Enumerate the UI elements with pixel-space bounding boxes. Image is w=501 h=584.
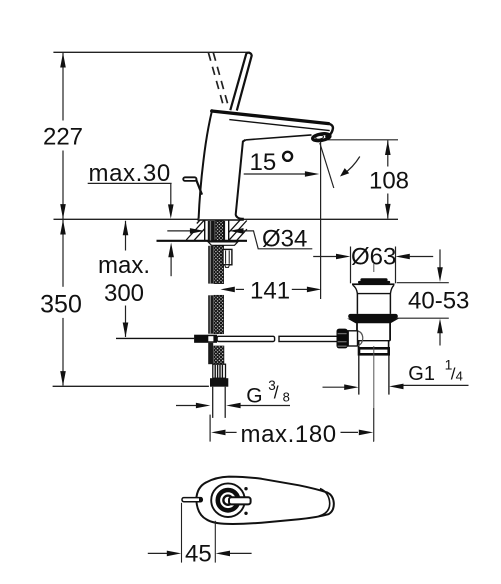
shank hole left edge (204, 220, 206, 241)
dimension G1 1/4 arrows (323, 386, 345, 388)
dimension 350 vertical line (62, 220, 64, 386)
handle screw dots (244, 487, 247, 490)
svg-text:max.180: max.180 (241, 421, 337, 448)
dimension 15-degree leader arrow (244, 173, 306, 175)
drain pop-up cap dome (360, 278, 387, 281)
faucet spout underside (246, 135, 312, 140)
svg-text:227: 227 (43, 123, 83, 150)
svg-text:8: 8 (283, 390, 290, 405)
deck hatching left block (186, 220, 204, 240)
lever blade raised (solid) (230, 53, 251, 111)
dimension 45 extension lines (181, 503, 183, 563)
node spout outlet reference line (322, 139, 399, 141)
handle boss thick ring (218, 490, 238, 510)
wire faucet base thick segment on counter (198, 218, 244, 221)
supply pipe below nut (212, 387, 214, 418)
hose braided upper (214, 246, 224, 284)
dimension G3/8 arrows (176, 405, 197, 407)
hose nut G3/8 (210, 378, 228, 387)
hose braided lower (214, 295, 224, 333)
drain flange trapezoid (347, 319, 399, 324)
dimension max.30 upper arrow (170, 183, 172, 204)
hose rear bar lower (208, 295, 213, 333)
faucet spout tip curve (329, 124, 333, 136)
drain neck walls (356, 294, 358, 314)
faucet body silhouette (199, 110, 333, 219)
drain rod port tube (348, 331, 357, 346)
spout mouth aerator (312, 133, 330, 142)
svg-text:G: G (246, 385, 262, 408)
svg-text:300: 300 (104, 280, 144, 307)
svg-text:max.: max. (98, 252, 150, 279)
svg-text:45: 45 (185, 541, 212, 568)
drain centerline lower (373, 346, 375, 441)
dimension 108 vertical line (387, 140, 389, 218)
lever blade phantom (dashed) (208, 53, 229, 109)
node water stream vertical line (320, 142, 322, 300)
shank body dark column (208, 221, 215, 241)
node stream 15-degree tilted line (320, 143, 334, 188)
handle boss inner ring (223, 496, 232, 505)
dimension max.300 vertical line (125, 221, 127, 337)
faucet body right edge (236, 140, 246, 219)
handle pin (182, 498, 202, 502)
pop-up rod tube segment 2 (279, 336, 338, 341)
svg-text:15: 15 (250, 149, 277, 176)
shank threaded column (215, 221, 223, 241)
shank hole right edge (228, 220, 230, 241)
drain cap cone (353, 285, 394, 293)
dimension stream curved arrow (344, 157, 360, 175)
node top reference line (max lever height) (53, 51, 250, 53)
drain seal band (348, 314, 398, 319)
svg-text:40-53: 40-53 (408, 287, 469, 314)
handle inner end line (319, 489, 330, 517)
svg-text:4: 4 (456, 369, 463, 384)
drain pull-rod knob (337, 329, 348, 349)
svg-text:141: 141 (250, 277, 290, 304)
mounting washer (208, 242, 238, 245)
dimension Ø34 leader (243, 231, 312, 249)
hose end connector ribbed (213, 364, 226, 378)
faucet top edge (thick) (212, 111, 329, 124)
faucet top-face bevel line (229, 120, 329, 131)
drain cap rim (352, 283, 395, 285)
dimension 40-53 reference lines (397, 282, 449, 284)
dimension 227 arrowheads (60, 53, 66, 219)
pop-up rod tube segment 1 (217, 336, 275, 341)
mounting stud (223, 249, 232, 264)
dimension 141 (236, 288, 244, 290)
dimension max.180 (209, 415, 211, 442)
handle silhouette (196, 477, 334, 524)
drain body port inner arc (358, 331, 363, 346)
drain tailpipe walls (358, 355, 360, 394)
handle boss outer circle (211, 483, 245, 517)
dimension max.30 lower arrow (170, 257, 172, 276)
drain valve body walls (356, 323, 358, 331)
joystick lever side handle (183, 177, 196, 181)
hose braided below clamp (214, 346, 224, 364)
dimension Ø34 arrows (167, 230, 190, 232)
shank inner dark line (223, 221, 225, 241)
pop-up rod left section (116, 337, 194, 339)
node counter/deck top line (54, 218, 399, 220)
svg-text:G1: G1 (408, 363, 435, 385)
svg-text:350: 350 (40, 291, 82, 319)
handle slot bar (229, 497, 251, 504)
faucet body left edge (199, 109, 213, 219)
drain bottom flange band (359, 348, 389, 354)
svg-text:Ø34: Ø34 (262, 225, 307, 252)
drain centerline upper dash (373, 264, 375, 272)
dimension 45 arrows (148, 552, 168, 554)
pop-up rod clamp (194, 335, 217, 343)
hose rear bar upper (208, 246, 213, 284)
svg-text:max.30: max.30 (89, 160, 171, 187)
dimension 40-53 arrows (439, 249, 441, 267)
drain Ø63 extension lines (350, 247, 352, 284)
node hose-end reference line (53, 385, 209, 387)
svg-text:108: 108 (369, 168, 409, 195)
svg-text:/: / (274, 383, 279, 403)
node deck bottom line (157, 240, 248, 242)
dimension 227 vertical line (62, 52, 64, 219)
hose rear bar below clamp (208, 343, 213, 364)
deck hatching right block (229, 220, 247, 241)
dimension Ø63 arrows (313, 256, 336, 258)
